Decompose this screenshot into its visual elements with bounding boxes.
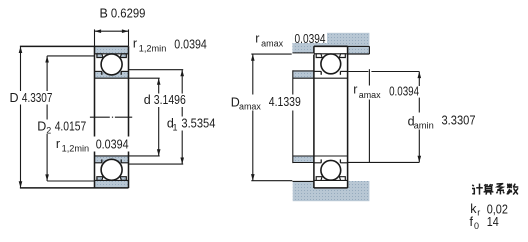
svg-text:amax: amax xyxy=(261,38,283,48)
svg-text:0.0394: 0.0394 xyxy=(389,85,419,99)
svg-text:0: 0 xyxy=(474,221,479,231)
svg-text:amin: amin xyxy=(414,121,434,131)
svg-text:3.5354: 3.5354 xyxy=(181,116,215,130)
svg-text:1: 1 xyxy=(173,122,178,132)
svg-text:1,2min: 1,2min xyxy=(139,43,167,53)
svg-text:0.0394: 0.0394 xyxy=(295,32,326,46)
svg-text:4.3307: 4.3307 xyxy=(22,91,53,105)
svg-text:d: d xyxy=(144,93,151,107)
svg-text:k: k xyxy=(470,202,477,216)
svg-text:0.0394: 0.0394 xyxy=(96,137,129,151)
svg-text:B: B xyxy=(100,7,108,21)
svg-text:f: f xyxy=(470,215,474,229)
svg-text:1,2min: 1,2min xyxy=(62,143,90,153)
svg-text:0.0394: 0.0394 xyxy=(174,37,207,51)
svg-text:r: r xyxy=(56,137,60,151)
svg-text:3.3307: 3.3307 xyxy=(442,114,476,128)
svg-text:amax: amax xyxy=(359,90,381,100)
svg-text:r: r xyxy=(255,32,259,46)
svg-text:D: D xyxy=(37,120,46,134)
svg-text:amax: amax xyxy=(239,102,261,112)
svg-text:2: 2 xyxy=(46,126,51,136)
svg-text:r: r xyxy=(133,37,137,51)
svg-text:r: r xyxy=(353,83,357,97)
svg-text:4.1339: 4.1339 xyxy=(269,95,301,109)
svg-text:r: r xyxy=(477,208,480,218)
svg-text:3.1496: 3.1496 xyxy=(154,93,186,107)
svg-text:14: 14 xyxy=(487,215,499,229)
svg-text:4.0157: 4.0157 xyxy=(55,120,87,134)
svg-text:0.6299: 0.6299 xyxy=(111,7,146,21)
svg-text:D: D xyxy=(10,91,19,105)
